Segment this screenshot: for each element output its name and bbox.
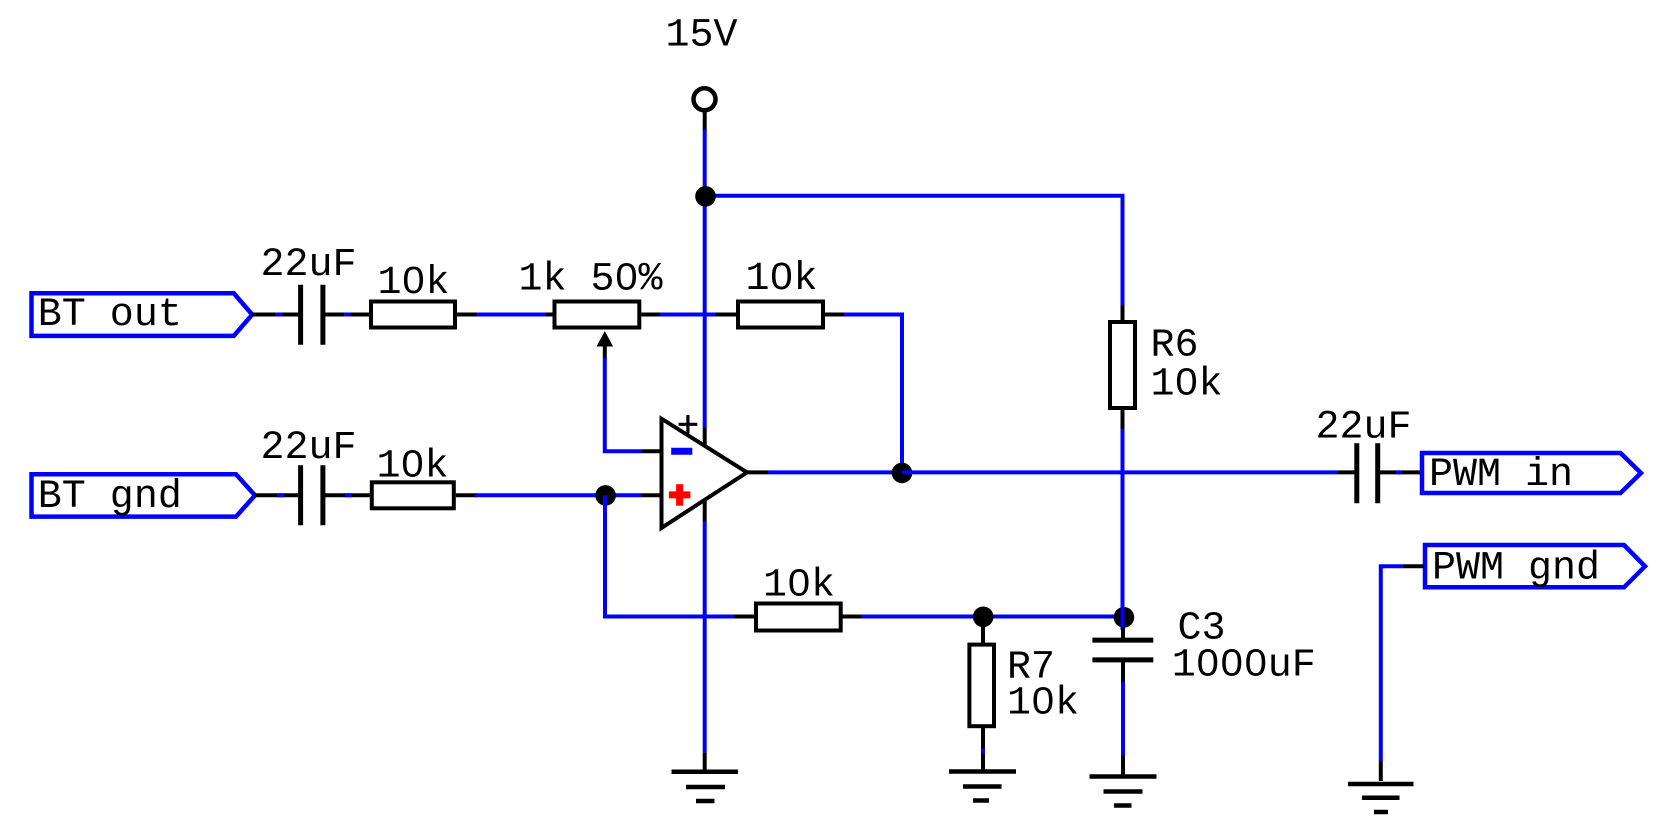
wire op-amp V- to ground (703, 521, 707, 752)
svg-text:1k 50%: 1k 50% (519, 258, 664, 303)
wire R1 to RV1 (477, 313, 547, 317)
pin V+ top (703, 428, 707, 447)
wire joint (275, 313, 282, 317)
svg-text:BT out: BT out (38, 293, 182, 338)
wire output to node (768, 470, 902, 474)
resistor R2 10k (738, 302, 823, 328)
wire C3 to ground (1121, 682, 1125, 756)
wire joint (277, 493, 284, 497)
junction output node (892, 463, 913, 484)
pin R2 right (825, 313, 845, 317)
pin stub to ground (703, 753, 707, 771)
pin stub C3 to ground (1121, 756, 1125, 775)
capacitor C3 1000uF (1092, 627, 1153, 683)
junction plus input node (595, 485, 616, 506)
wire plus node down to feedback (605, 495, 733, 616)
junction 15V node (695, 186, 716, 207)
resistor R7 10k (969, 627, 994, 750)
svg-text:22uF: 22uF (1316, 406, 1412, 451)
op-amp U1 (662, 419, 748, 528)
pin C4 left (1337, 470, 1357, 474)
resistor R1 10k (371, 302, 455, 328)
svg-text:1000uF: 1000uF (1172, 644, 1316, 689)
pin BT gnd to C2 (255, 493, 302, 497)
resistor R6 10k (1110, 305, 1135, 429)
marker V+ plus black (679, 415, 698, 434)
capacitor C4 22uF (1357, 443, 1378, 503)
pin stub R7 to ground (981, 753, 985, 770)
pin V- bottom (703, 500, 707, 522)
power terminal 15V (694, 88, 716, 110)
pin R3 right (456, 493, 477, 497)
potentiometer RV1 1k 50% (555, 302, 640, 328)
pin C1 to R1 (323, 313, 369, 317)
wire R2 to output node (844, 315, 902, 473)
pin stub from 15V terminal (703, 111, 707, 132)
junction R7 node (973, 607, 994, 628)
capacitor C1 22uF (301, 285, 323, 345)
pin C2 to R3 (323, 493, 370, 497)
wire 15V to R6 top (705, 196, 1123, 306)
pin output (747, 470, 769, 474)
svg-text:22uF: 22uF (261, 426, 357, 471)
zero counter masks (408, 269, 1261, 705)
wire R7 bottom joint (981, 749, 985, 754)
resistor R4 10k feedback (756, 604, 841, 631)
pin plus input (642, 493, 662, 497)
svg-text:PWM in: PWM in (1429, 453, 1573, 498)
pin BT out to C1 (252, 313, 301, 317)
pin C4 right (1378, 470, 1422, 474)
svg-text:15V: 15V (666, 14, 738, 59)
svg-text:BT gnd: BT gnd (38, 475, 182, 520)
wire R3 to plus input (475, 493, 642, 497)
flag PWM in (1422, 453, 1641, 493)
svg-text:22uF: 22uF (261, 243, 357, 288)
flag BT gnd (32, 474, 256, 516)
pin PWM gnd (1403, 564, 1424, 568)
junction C3 node (1114, 607, 1135, 628)
wire joint (1396, 470, 1402, 474)
marker plus input red (669, 484, 691, 506)
wiper arrow of RV1 (597, 331, 614, 359)
wire joint (344, 313, 351, 317)
pin RV1 right (641, 313, 736, 317)
wire feedback left (733, 615, 754, 619)
pin R4 right (842, 615, 861, 619)
ground under op-amp (672, 772, 739, 801)
marker minus input blue (671, 448, 692, 455)
wire R6 bottom to C3 node (1121, 429, 1125, 630)
wire wiper to op-amp minus input (605, 358, 642, 452)
flag PWM gnd (1425, 545, 1645, 587)
pin minus input (642, 449, 662, 453)
ground under R7 (949, 772, 1016, 801)
ground under PWM gnd (1348, 784, 1414, 812)
pin R1 right (457, 313, 553, 317)
wire 15V vertical (703, 130, 707, 429)
wire joint (345, 493, 352, 497)
resistor R3 10k (372, 482, 454, 508)
wire feedback right (861, 615, 1122, 619)
wire PWM gnd to ground (1381, 566, 1403, 761)
wire RV1 to R2 (660, 313, 716, 317)
pin stub PWM gnd ground (1379, 761, 1383, 781)
ground under C3 (1090, 777, 1157, 806)
capacitor C2 22uF (301, 465, 323, 525)
flag BT out (32, 293, 253, 336)
svg-text:PWM gnd: PWM gnd (1432, 547, 1600, 592)
wire output node to C4 (902, 470, 1337, 474)
